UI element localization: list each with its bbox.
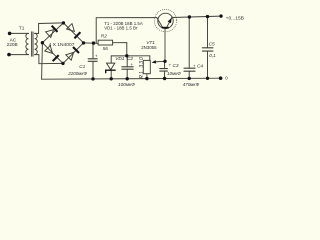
wire riser to top rail: [96, 18, 157, 44]
terminal dot output zero: [219, 76, 223, 80]
node C4 on bottom rail: [188, 77, 191, 80]
diode D1 bar: [52, 26, 58, 32]
node wiper/base/C3 junction: [163, 60, 166, 63]
terminal dot AC top: [8, 32, 12, 36]
svg-text:C4: C4: [197, 63, 203, 69]
svg-text:+: +: [95, 54, 98, 59]
node C1 tap: [92, 41, 95, 44]
svg-text:220В: 220В: [7, 42, 18, 48]
wire secondary top to bridge top corner: [35, 23, 64, 34]
svg-text:VD1 - 18В 1.5 Вт: VD1 - 18В 1.5 Вт: [104, 26, 138, 31]
diode D3 bar: [53, 55, 59, 61]
svg-text:R1 330: R1 330: [139, 56, 145, 78]
top rail right (output): [172, 16, 221, 17]
svg-text:+: +: [131, 62, 134, 67]
capacitor C1 plates: [88, 58, 97, 60]
node C4 on top rail: [188, 15, 191, 18]
bridge edge T-R: [63, 23, 83, 43]
svg-text:VD1: VD1: [115, 56, 125, 62]
svg-text:+: +: [193, 63, 196, 68]
capacitor C5 top lead: [207, 17, 209, 48]
svg-text:C3: C3: [173, 63, 179, 69]
capacitor C4 bottom lead: [188, 71, 190, 78]
node C1 on bottom rail: [91, 77, 94, 80]
zener VD1 top lead: [110, 56, 112, 63]
wire R2 to node: [113, 43, 127, 56]
svg-text:470мкФ: 470мкФ: [183, 82, 200, 87]
transistor VT1 case dashed circle: [154, 9, 176, 31]
svg-text:4 X 1N4007: 4 X 1N4007: [49, 42, 75, 48]
potentiometer R1 top lead: [149, 56, 151, 61]
diode D1 triangle: [46, 30, 54, 38]
capacitor C2 plates: [122, 66, 133, 68]
potentiometer R1 wiper arrowhead: [152, 60, 157, 63]
node C2 on bottom rail: [126, 77, 129, 80]
svg-text:+: +: [169, 62, 172, 67]
transistor VT1 collector line: [157, 18, 163, 27]
transformer T1 primary winding: [26, 33, 29, 54]
wire AC bottom terminal lead: [9, 54, 29, 56]
zener VD1 triangle: [107, 63, 115, 70]
capacitor C3 top lead: [164, 61, 166, 68]
potentiometer R1 wiper wire: [155, 60, 165, 63]
node bridge bottom corner: [61, 62, 64, 65]
wire secondary bottom to bridge bottom corner: [35, 55, 63, 64]
capacitor C4 plates: [184, 67, 195, 69]
svg-text:2N3055: 2N3055: [141, 45, 157, 50]
transistor VT1 base bar: [162, 27, 169, 29]
capacitor C1 bottom lead: [92, 61, 94, 79]
transistor VT1 emitter line: [167, 18, 172, 28]
wire AC top terminal lead: [10, 32, 29, 34]
svg-text:56: 56: [103, 46, 109, 52]
capacitor C3 bottom lead: [164, 71, 166, 78]
transformer T1 core: [31, 32, 33, 56]
node R1 on bottom rail: [145, 77, 148, 80]
diode D2 triangle: [67, 24, 75, 32]
terminal dot output plus: [219, 14, 222, 17]
potentiometer R1 body: [143, 60, 150, 73]
capacitor C4 top lead: [188, 17, 190, 68]
capacitor C5 bottom lead: [207, 51, 209, 78]
capacitor C2 bottom lead: [126, 69, 128, 79]
svg-text:2200мкФ: 2200мкФ: [67, 71, 87, 76]
transistor VT1 emitter arrowhead: [168, 18, 172, 24]
svg-text:C1: C1: [79, 64, 85, 70]
svg-text:C5: C5: [209, 41, 215, 47]
zener VD1 cathode bar with hook: [106, 70, 116, 73]
zener VD1 bottom lead: [110, 70, 112, 79]
diode D4 triangle: [66, 52, 74, 60]
svg-text:+0...15В: +0...15В: [226, 15, 244, 21]
svg-text:T1: T1: [19, 26, 25, 32]
node C3 on bottom rail: [163, 77, 166, 80]
transformer T1 secondary winding: [35, 33, 38, 54]
terminal dot AC bottom: [7, 53, 11, 57]
diode D3 triangle: [45, 46, 53, 54]
bridge edge B-R: [63, 43, 84, 64]
node C5 on top rail: [206, 15, 209, 18]
bridge edge L-B: [42, 43, 63, 64]
node bridge left corner: [41, 41, 44, 44]
node line (zener node): [111, 55, 150, 57]
transistor VT1 base lead: [164, 28, 166, 62]
node bridge right corner: [82, 41, 85, 44]
resistor R2 body: [98, 40, 113, 45]
wire bridge positive output: [84, 42, 99, 44]
node VD1 on bottom rail: [110, 77, 113, 80]
diode D4 bar: [73, 47, 79, 53]
transistor VT1 body circle: [158, 13, 173, 28]
svg-text:100мкФ: 100мкФ: [118, 82, 135, 87]
wire bridge negative drop to bottom rail: [41, 43, 44, 79]
diode D2 bar: [74, 32, 80, 38]
svg-text:10мкФ: 10мкФ: [167, 71, 181, 76]
bridge edge L-T: [42, 23, 63, 43]
potentiometer R1 bottom lead: [146, 74, 148, 79]
svg-text:R2: R2: [101, 34, 107, 40]
node C5 on bottom rail: [206, 77, 209, 80]
capacitor C2 top lead: [126, 56, 128, 67]
capacitor C3 plates: [160, 68, 168, 70]
node R2/C2 junction: [125, 54, 128, 57]
capacitor C5 plates: [202, 47, 213, 49]
bottom rail (0 V): [42, 78, 221, 79]
capacitor C1 top lead: [92, 43, 94, 59]
svg-text:0,1: 0,1: [209, 53, 216, 59]
node bridge top corner: [62, 21, 65, 24]
